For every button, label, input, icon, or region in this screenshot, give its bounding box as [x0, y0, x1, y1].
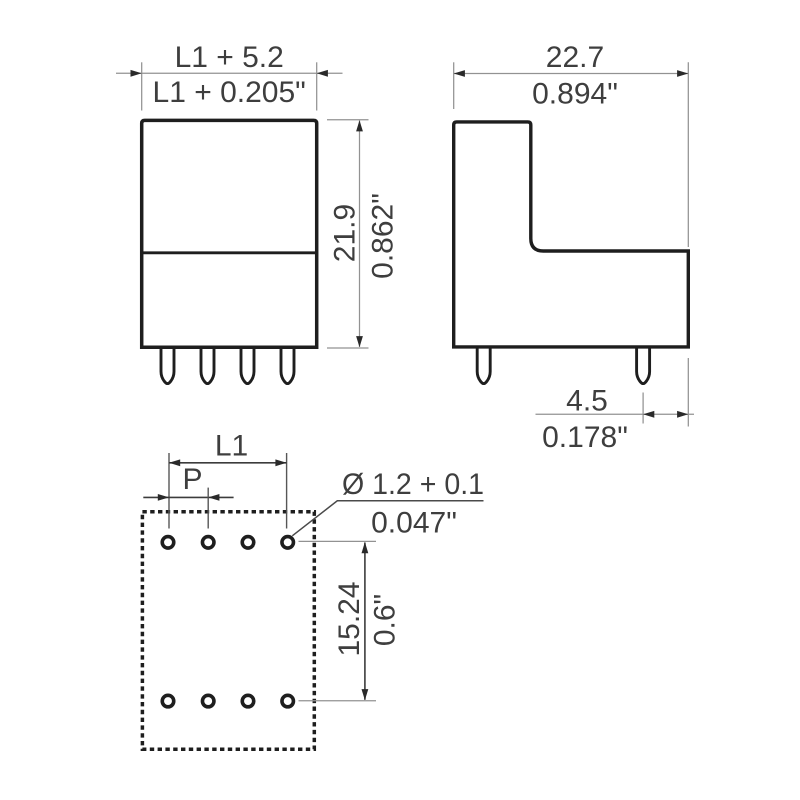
dimension 4.5 extension line right: [687, 358, 689, 427]
dimension L1 arrow left: [169, 459, 180, 466]
svg-text:L1: L1: [215, 429, 248, 462]
dimension 21.9 arrow top: [356, 120, 363, 131]
dimension 4.5 arrow right: [677, 411, 688, 418]
dimension L1+5.2 extension line left: [141, 62, 143, 110]
svg-text:0.862": 0.862": [367, 193, 400, 279]
dimension 4.5 arrow left: [643, 411, 654, 418]
dimension P arrow right: [208, 494, 219, 501]
svg-text:0.894": 0.894": [532, 78, 618, 111]
dimension L1 dimension line: [169, 462, 287, 464]
svg-text:L1 + 5.2: L1 + 5.2: [175, 41, 284, 74]
front view divider line: [142, 251, 317, 254]
footprint hole row1 1: [162, 537, 174, 549]
footprint hole row2 2: [202, 695, 214, 707]
dimension 15.24 arrow bottom: [362, 689, 369, 700]
footprint dashed outline: [142, 512, 314, 749]
front view housing outline: [142, 120, 317, 347]
dimension 21.9 extension line bottom: [327, 347, 369, 349]
dimension 22.7 arrow left: [454, 70, 465, 77]
dimension L1+5.2 arrow left: [131, 70, 142, 77]
front view pin 4: [281, 346, 294, 384]
footprint hole row2 4: [282, 695, 294, 707]
dimension L1 extension line right: [286, 453, 288, 529]
leader line hole diameter: [292, 501, 483, 536]
dimension 22.7 dimension line: [454, 73, 689, 75]
side view pin right: [637, 346, 650, 384]
front view pin 2: [201, 346, 214, 384]
dimension L1+5.2 extension line right: [316, 62, 318, 110]
svg-text:0.047": 0.047": [371, 507, 457, 540]
dimension 15.24 extension line bottom: [299, 700, 377, 702]
svg-text:22.7: 22.7: [546, 41, 604, 74]
dimension 22.7 extension line right: [687, 62, 689, 247]
dimension L1+5.2 dimension line: [116, 72, 343, 74]
dimension 21.9 arrow bottom: [356, 336, 363, 347]
footprint hole row1 2: [202, 537, 214, 549]
footprint hole row1 3: [242, 537, 254, 549]
footprint hole row2 3: [242, 695, 254, 707]
side view housing outline: [454, 122, 689, 347]
svg-text:4.5: 4.5: [566, 385, 608, 418]
dimension P extension line: [207, 488, 209, 529]
dimension P arrow left: [158, 494, 169, 501]
dimension 21.9 dimension line: [359, 121, 361, 348]
dimension 22.7 extension line left: [453, 62, 455, 109]
dimension 22.7 arrow right: [677, 70, 688, 77]
dimension 4.5 extension line pin: [642, 393, 644, 424]
svg-text:21.9: 21.9: [329, 204, 362, 262]
svg-text:15.24: 15.24: [333, 581, 366, 656]
svg-text:Ø 1.2 + 0.1: Ø 1.2 + 0.1: [342, 468, 484, 501]
front view pin 3: [241, 346, 254, 384]
svg-text:0.178": 0.178": [542, 421, 628, 454]
dimension P dimension line: [143, 496, 233, 498]
front view pin 1: [161, 346, 174, 384]
dimension L1+5.2 arrow right: [317, 70, 328, 77]
dimension L1 extension line left: [168, 453, 170, 529]
dimension 15.24 dimension line: [364, 543, 366, 700]
dimension L1 arrow right: [275, 459, 286, 466]
svg-text:L1 + 0.205": L1 + 0.205": [153, 76, 306, 109]
svg-text:P: P: [182, 463, 202, 496]
dimension 4.5 dimension line: [536, 413, 695, 415]
footprint hole row2 1: [162, 695, 174, 707]
dimension 21.9 extension line top: [327, 119, 369, 121]
side view pin left: [477, 346, 490, 384]
svg-text:0.6": 0.6": [369, 594, 402, 646]
footprint hole row1 4: [282, 537, 294, 549]
dimension 15.24 extension line top: [299, 540, 377, 542]
dimension 15.24 arrow top: [362, 542, 369, 553]
